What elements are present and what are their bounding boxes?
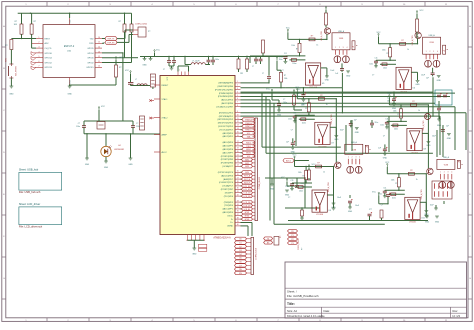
svg-text:GND: GND	[192, 254, 197, 256]
svg-text:Rev:: Rev:	[453, 309, 459, 313]
svg-text:VUSB: VUSB	[444, 164, 448, 166]
svg-text:33: 33	[237, 200, 239, 202]
svg-text:U5: U5	[322, 83, 324, 85]
svg-text:19: 19	[237, 148, 239, 150]
svg-text:(PCINT4)PB4: (PCINT4)PB4	[221, 156, 234, 158]
svg-text:4: 4	[359, 157, 360, 159]
svg-text:R?: R?	[387, 53, 389, 55]
svg-text:C?: C?	[281, 70, 283, 72]
svg-text:ESP-07-2: ESP-07-2	[64, 45, 75, 48]
svg-text:1k: 1k	[407, 49, 409, 51]
svg-text:(PCINT5)PB5: (PCINT5)PB5	[221, 159, 234, 161]
svg-text:110m: 110m	[292, 63, 297, 65]
svg-text:LT6106: LT6106	[409, 222, 417, 224]
svg-text:17: 17	[237, 141, 239, 143]
svg-text:110k: 110k	[284, 78, 288, 80]
svg-text:C?: C?	[283, 99, 285, 101]
svg-text:AREF: AREF	[162, 133, 168, 136]
svg-text:1k: 1k	[416, 179, 418, 181]
svg-text:(TDO)PF6: (TDO)PF6	[224, 196, 234, 198]
svg-text:29: 29	[237, 184, 239, 186]
svg-text:GND: GND	[415, 84, 420, 86]
svg-text:110n: 110n	[380, 125, 384, 127]
svg-text:C??: C??	[369, 209, 372, 211]
svg-text:1: 1	[39, 37, 40, 39]
svg-text:P0: P0	[291, 231, 293, 233]
svg-text:LM2940SR: LM2940SR	[114, 149, 125, 151]
svg-text:GPIO14: GPIO14	[45, 58, 53, 60]
svg-text:1k: 1k	[418, 110, 420, 112]
svg-text:10uF: 10uF	[432, 135, 436, 137]
svg-text:10uF: 10uF	[421, 74, 425, 76]
svg-text:(ADC8)PF0: (ADC8)PF0	[223, 132, 234, 135]
svg-text:110n: 110n	[76, 126, 80, 128]
svg-text:D3: D3	[239, 250, 241, 252]
svg-text:P4: P4	[443, 51, 445, 53]
svg-text:GND: GND	[437, 125, 442, 127]
svg-text:VCC: VCC	[266, 89, 271, 91]
svg-text:GPIO2: GPIO2	[87, 62, 94, 64]
svg-text:110m: 110m	[302, 123, 307, 125]
svg-text:D1: D1	[239, 243, 241, 245]
svg-text:U7: U7	[331, 142, 333, 144]
svg-text:110m: 110m	[383, 68, 388, 70]
svg-text:C?: C?	[262, 73, 264, 75]
svg-text:R?: R?	[284, 75, 286, 77]
svg-text:R?: R?	[305, 108, 307, 110]
svg-text:R?: R?	[119, 67, 121, 69]
svg-text:(ADC5)PF5: (ADC5)PF5	[223, 145, 234, 148]
svg-text:P5: P5	[458, 161, 460, 163]
svg-text:D4: D4	[239, 254, 241, 256]
svg-text:(ADC0)PF0: (ADC0)PF0	[223, 211, 234, 214]
svg-text:VCC: VCC	[125, 70, 130, 72]
svg-text:D7: D7	[239, 265, 241, 267]
svg-text:3: 3	[39, 47, 40, 49]
svg-text:4: 4	[451, 172, 452, 174]
svg-text:(INT1/SDA)PD1: (INT1/SDA)PD1	[219, 115, 234, 118]
svg-text:C?: C?	[291, 129, 293, 131]
svg-text:GND: GND	[85, 164, 90, 166]
svg-text:110k: 110k	[393, 110, 397, 112]
svg-text:R?: R?	[5, 45, 7, 47]
svg-text:13: 13	[237, 125, 239, 127]
svg-text:GND: GND	[437, 80, 442, 82]
svg-text:Date:: Date:	[324, 309, 331, 313]
svg-text:P1: P1	[352, 46, 354, 48]
svg-text:18: 18	[237, 144, 239, 146]
svg-text:1uF: 1uF	[446, 125, 449, 127]
svg-text:UVCC: UVCC	[227, 215, 233, 217]
svg-text:GND: GND	[447, 138, 452, 140]
svg-text:Sheet: LCD_driver: Sheet: LCD_driver	[19, 202, 40, 206]
svg-text:3: 3	[343, 47, 344, 49]
svg-text:1k: 1k	[323, 172, 325, 174]
svg-text:VUSB: VUSB	[429, 42, 433, 44]
svg-text:VCC: VCC	[286, 28, 291, 30]
svg-text:26: 26	[237, 174, 239, 176]
svg-text:SW1: SW1	[6, 58, 8, 62]
svg-text:P3: P3	[291, 243, 293, 245]
svg-text:VCC: VCC	[156, 50, 161, 52]
svg-text:C?: C?	[288, 197, 290, 199]
svg-text:2: 2	[444, 172, 445, 174]
svg-text:5: 5	[39, 56, 40, 58]
svg-text:(PCINT6)PB6: (PCINT6)PB6	[221, 163, 234, 165]
svg-text:GPIO12: GPIO12	[45, 62, 53, 64]
svg-text:10: 10	[237, 114, 239, 116]
svg-text:GND: GND	[435, 222, 440, 224]
svg-text:LT6106: LT6106	[316, 214, 324, 216]
svg-text:(PCINT7)PB7: (PCINT7)PB7	[221, 189, 234, 191]
svg-text:(INT6/AIN0)PE6: (INT6/AIN0)PE6	[219, 82, 234, 85]
svg-text:SW3: SW3	[245, 166, 249, 168]
svg-text:GND: GND	[325, 80, 330, 82]
svg-text:U6: U6	[413, 87, 415, 89]
svg-text:(PCINT1/SCLK)PB1: (PCINT1/SCLK)PB1	[215, 89, 234, 91]
svg-text:CONN_01X28: CONN_01X28	[259, 177, 261, 189]
svg-text:GND: GND	[348, 211, 353, 213]
svg-text:(OC4A)PC7: (OC4A)PC7	[222, 185, 234, 188]
svg-text:C11: C11	[293, 113, 296, 115]
svg-text:Sheet: /: Sheet: /	[287, 289, 297, 293]
svg-text:110n: 110n	[288, 119, 292, 121]
svg-text:Title:: Title:	[287, 302, 295, 306]
svg-text:20: 20	[237, 151, 239, 153]
svg-text:VCC: VCC	[387, 93, 392, 95]
svg-text:File: LCD_driver.sch: File: LCD_driver.sch	[19, 225, 43, 229]
svg-text:2: 2	[339, 47, 340, 49]
svg-text:35: 35	[237, 207, 239, 209]
svg-text:ADC: ADC	[45, 42, 50, 45]
svg-text:GND: GND	[383, 157, 388, 159]
svg-text:31: 31	[237, 191, 239, 193]
svg-text:3: 3	[355, 157, 356, 159]
svg-text:R?: R?	[311, 35, 313, 37]
svg-text:CH_PD: CH_PD	[45, 48, 52, 50]
svg-text:P2: P2	[366, 146, 368, 148]
svg-text:GND: GND	[355, 132, 360, 134]
svg-text:GND: GND	[346, 75, 351, 77]
svg-text:3: 3	[448, 172, 449, 174]
svg-text:D0: D0	[239, 239, 241, 241]
svg-text:D5: D5	[239, 258, 241, 260]
svg-text:RESET: RESET	[162, 85, 169, 87]
svg-text:1k: 1k	[316, 44, 318, 46]
svg-text:U8: U8	[423, 148, 425, 150]
svg-text:(PDO/MISO)PB3: (PDO/MISO)PB3	[218, 96, 234, 98]
svg-text:110m: 110m	[299, 190, 304, 192]
svg-text:6: 6	[39, 61, 40, 63]
svg-text:(INT2/RXD1)PD2: (INT2/RXD1)PD2	[218, 119, 234, 121]
svg-text:P2: P2	[291, 239, 293, 241]
svg-text:P?: P?	[148, 31, 150, 33]
svg-text:14: 14	[237, 128, 239, 130]
svg-text:ROT_A: ROT_A	[244, 175, 251, 178]
svg-text:C11: C11	[375, 58, 378, 60]
svg-text:REST: REST	[45, 38, 51, 40]
svg-text:(XCK1/CTS)PD5: (XCK1/CTS)PD5	[218, 126, 234, 128]
svg-text:1uF: 1uF	[286, 141, 289, 143]
svg-text:C?: C?	[163, 69, 165, 71]
svg-text:(ADC1)PF1: (ADC1)PF1	[223, 208, 234, 211]
svg-text:11: 11	[237, 118, 239, 120]
svg-text:GND: GND	[70, 79, 72, 84]
svg-text:7: 7	[39, 66, 40, 68]
svg-text:25: 25	[237, 171, 239, 173]
svg-text:GND: GND	[67, 94, 72, 96]
svg-text:3: 3	[433, 51, 434, 53]
svg-text:R?: R?	[15, 21, 17, 23]
svg-text:Sheet: USB_hub: Sheet: USB_hub	[19, 168, 39, 172]
svg-text:10uF: 10uF	[337, 197, 341, 199]
svg-text:2: 2	[429, 51, 430, 53]
svg-text:GND: GND	[277, 115, 282, 117]
svg-text:10uF: 10uF	[340, 129, 344, 131]
svg-text:L?_10uH: L?_10uH	[192, 61, 200, 63]
svg-text:R?: R?	[303, 176, 305, 178]
svg-text:1uF: 1uF	[335, 73, 338, 75]
svg-text:1k: 1k	[326, 104, 328, 106]
svg-text:SW_PUSH: SW_PUSH	[15, 66, 17, 76]
svg-text:(ADC4)PF4: (ADC4)PF4	[223, 141, 234, 144]
svg-text:(TCK)PF4: (TCK)PF4	[224, 205, 234, 207]
svg-text:30: 30	[237, 188, 239, 190]
svg-text:XTAL2: XTAL2	[162, 116, 169, 119]
svg-text:G: G	[469, 278, 471, 280]
svg-text:C11: C11	[284, 53, 287, 55]
svg-text:36: 36	[237, 211, 239, 213]
svg-text:P1: P1	[291, 235, 293, 237]
svg-text:XTAL1: XTAL1	[162, 98, 169, 101]
svg-text:110k: 110k	[298, 172, 302, 174]
svg-text:GPIO4: GPIO4	[87, 53, 94, 55]
svg-text:VCC: VCC	[420, 10, 425, 12]
svg-text:110k: 110k	[291, 45, 295, 47]
svg-text:D6: D6	[239, 262, 241, 264]
svg-text:P?: P?	[280, 236, 282, 238]
svg-text:100n: 100n	[215, 59, 219, 61]
svg-text:40: 40	[237, 224, 239, 226]
svg-text:4: 4	[39, 51, 40, 53]
svg-text:LCD_D5: LCD_D5	[244, 196, 251, 198]
svg-text:14: 14	[98, 47, 100, 49]
svg-text:(TMS)PF5: (TMS)PF5	[224, 202, 234, 204]
svg-text:U11: U11	[421, 217, 424, 219]
svg-text:VCC: VCC	[120, 57, 125, 59]
svg-text:C?: C?	[136, 123, 138, 125]
svg-text:P?: P?	[302, 248, 304, 250]
svg-text:R?: R?	[317, 163, 319, 165]
svg-text:110n: 110n	[375, 122, 379, 124]
svg-text:(ADC6)PF6: (ADC6)PF6	[223, 148, 234, 151]
svg-text:GPIO13: GPIO13	[45, 67, 53, 69]
svg-text:TXD: TXD	[90, 38, 95, 40]
svg-text:UGND: UGND	[227, 226, 233, 228]
svg-text:(ADC7)PF7: (ADC7)PF7	[223, 151, 234, 154]
svg-text:(ICP3/CLK0)PC6: (ICP3/CLK0)PC6	[218, 172, 234, 174]
svg-text:12: 12	[237, 121, 239, 123]
svg-text:RXD: RXD	[89, 43, 94, 45]
svg-text:10: 10	[98, 66, 100, 68]
svg-text:110n: 110n	[136, 126, 140, 128]
svg-text:BTN3: BTN3	[245, 219, 250, 221]
svg-text:4: 4	[346, 47, 347, 49]
svg-text:File: 4xUSB_PowMet.sch: File: 4xUSB_PowMet.sch	[287, 294, 319, 298]
svg-text:ATMEGA32U4-A: ATMEGA32U4-A	[213, 237, 231, 240]
svg-text:15: 15	[98, 42, 100, 44]
svg-text:AVCC: AVCC	[162, 151, 168, 154]
svg-text:R?: R?	[320, 95, 322, 97]
svg-text:USB_A: USB_A	[443, 156, 450, 159]
svg-text:13: 13	[98, 51, 100, 53]
svg-text:R?: R?	[395, 183, 397, 185]
svg-text:R?: R?	[401, 40, 403, 42]
svg-text:R?: R?	[412, 101, 414, 103]
svg-text:D2: D2	[239, 246, 241, 248]
svg-text:1uF: 1uF	[354, 119, 357, 121]
svg-text:KiCad E.D.A. kicad 4.0.1-stab: KiCad E.D.A. kicad 4.0.1-stable	[287, 314, 325, 318]
svg-text:GPIO15: GPIO15	[86, 67, 94, 69]
svg-text:22: 22	[237, 158, 239, 160]
svg-text:110m: 110m	[394, 129, 399, 131]
svg-text:110k: 110k	[391, 179, 395, 181]
svg-text:CONN_01X10: CONN_01X10	[256, 248, 258, 260]
svg-text:VCC: VCC	[295, 87, 300, 89]
svg-text:C?: C?	[383, 135, 385, 137]
svg-text:VUSB: VUSB	[339, 38, 343, 40]
svg-text:C11: C11	[291, 180, 294, 182]
svg-text:(SS/PCINT0)PB0: (SS/PCINT0)PB0	[218, 86, 234, 88]
svg-text:VCC: VCC	[372, 192, 377, 194]
svg-text:(ADC13)PB6: (ADC13)PB6	[221, 102, 233, 105]
svg-text:R?: R?	[296, 48, 298, 50]
svg-text:GND: GND	[425, 222, 430, 224]
svg-text:(CLK0/ICP)PC6: (CLK0/ICP)PC6	[219, 182, 234, 184]
svg-text:GND: GND	[104, 167, 109, 169]
svg-text:C?: C?	[372, 74, 374, 76]
svg-text:15: 15	[237, 131, 239, 133]
svg-text:GPIO16: GPIO16	[45, 53, 53, 55]
svg-text:GND: GND	[142, 65, 147, 67]
svg-text:110k: 110k	[382, 49, 386, 51]
svg-text:110n: 110n	[285, 186, 289, 188]
svg-text:Size: A4: Size: A4	[287, 309, 297, 313]
svg-text:1uF: 1uF	[426, 78, 429, 80]
svg-text:37: 37	[237, 214, 239, 216]
svg-text:4: 4	[437, 51, 438, 53]
svg-text:(OC4A)PC7: (OC4A)PC7	[222, 165, 234, 168]
svg-text:GND: GND	[291, 151, 296, 153]
svg-text:File: USB_hub.sch: File: USB_hub.sch	[19, 190, 41, 194]
svg-text:2: 2	[39, 42, 40, 44]
svg-text:(INT3/TXD1)PD3: (INT3/TXD1)PD3	[218, 123, 234, 125]
svg-text:GPIO0: GPIO0	[87, 58, 94, 60]
svg-text:16: 16	[237, 135, 239, 137]
svg-text:VCC: VCC	[293, 155, 298, 157]
svg-text:G: G	[3, 278, 5, 280]
svg-text:(OC0A/OC1C)PB7: (OC0A/OC1C)PB7	[216, 105, 234, 108]
svg-text:10uF: 10uF	[330, 70, 334, 72]
svg-text:Id: 1/3: Id: 1/3	[453, 314, 461, 318]
svg-text:(AIN2)PD7: (AIN2)PD7	[223, 178, 234, 181]
svg-text:39: 39	[237, 221, 239, 223]
svg-text:1: 1	[440, 172, 441, 174]
svg-text:R?: R?	[119, 21, 121, 23]
svg-text:12: 12	[98, 56, 100, 58]
svg-text:10uF: 10uF	[355, 205, 359, 207]
svg-text:(ADC12)PD4: (ADC12)PD4	[221, 99, 234, 102]
svg-text:L?: L?	[135, 79, 137, 81]
svg-text:34: 34	[237, 204, 239, 206]
svg-text:100n: 100n	[283, 102, 287, 104]
svg-text:23: 23	[237, 161, 239, 163]
svg-text:11: 11	[98, 61, 100, 63]
svg-text:(ADC10)PD6: (ADC10)PD6	[221, 174, 234, 177]
svg-text:ESP_RX: ESP_RX	[108, 42, 116, 44]
svg-text:R?: R?	[34, 21, 36, 23]
svg-text:VCC: VCC	[385, 162, 390, 164]
svg-text:27: 27	[237, 177, 239, 179]
svg-text:GPIO5: GPIO5	[87, 48, 94, 50]
svg-text:110m: 110m	[392, 198, 397, 200]
svg-text:GND: GND	[9, 94, 14, 96]
svg-text:USB_A: USB_A	[338, 30, 345, 33]
svg-text:1uF: 1uF	[378, 147, 381, 149]
svg-text:C?: C?	[252, 66, 254, 68]
svg-text:10uF: 10uF	[430, 204, 434, 206]
svg-text:VCC: VCC	[101, 106, 106, 108]
svg-text:110n: 110n	[369, 64, 373, 66]
svg-text:R?: R?	[410, 170, 412, 172]
svg-text:1: 1	[335, 47, 336, 49]
svg-text:(ADC9)PF1: (ADC9)PF1	[223, 135, 234, 138]
svg-text:C?: C?	[78, 123, 80, 125]
svg-text:1: 1	[426, 51, 427, 53]
svg-text:GND: GND	[128, 164, 133, 166]
svg-text:(PDI/MOSI)PB2: (PDI/MOSI)PB2	[219, 93, 234, 95]
svg-text:C11: C11	[383, 188, 386, 190]
svg-text:28: 28	[237, 181, 239, 183]
svg-text:D-: D-	[231, 219, 233, 221]
svg-text:1: 1	[348, 157, 349, 159]
svg-text:38: 38	[237, 217, 239, 219]
svg-text:(TDI)PF7: (TDI)PF7	[225, 192, 234, 194]
svg-text:2: 2	[352, 157, 353, 159]
svg-text:C?: C?	[381, 204, 383, 206]
svg-text:CONN_01X02: CONN_01X02	[135, 24, 147, 26]
svg-text:(INT0/SCL)PD0: (INT0/SCL)PD0	[219, 112, 234, 114]
svg-text:C11: C11	[385, 119, 388, 121]
svg-text:(T1/OC4D)PD7: (T1/OC4D)PD7	[219, 129, 234, 131]
svg-text:USB_A: USB_A	[429, 34, 436, 37]
svg-text:CONN_02X04: CONN_02X04	[298, 239, 300, 251]
svg-text:21: 21	[237, 154, 239, 156]
svg-text:GND: GND	[270, 189, 275, 191]
svg-text:110k: 110k	[301, 104, 305, 106]
svg-text:32: 32	[237, 194, 239, 196]
svg-text:16: 16	[98, 37, 100, 39]
svg-text:110n: 110n	[279, 59, 283, 61]
svg-text:R?: R?	[397, 114, 399, 116]
svg-text:VCC: VCC	[377, 32, 382, 34]
svg-text:ADC1: ADC1	[286, 159, 291, 162]
svg-text:U9: U9	[329, 210, 331, 212]
svg-text:24: 24	[237, 165, 239, 167]
